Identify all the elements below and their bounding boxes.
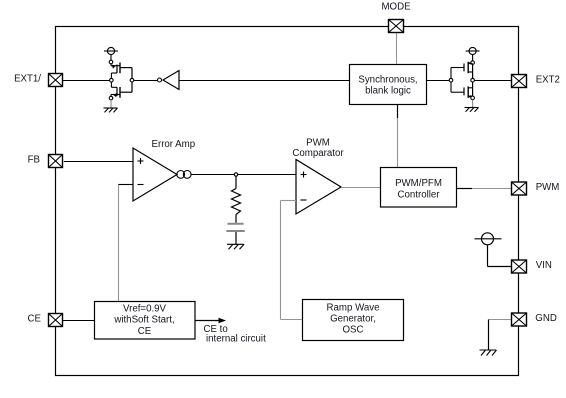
svg-text:EXT1/: EXT1/ bbox=[14, 74, 41, 85]
block PWM/PFM Controller bbox=[381, 168, 457, 208]
wire Synchronous box to PWM/PFM controller bbox=[397, 104, 399, 167]
svg-text:blank logic: blank logic bbox=[365, 86, 411, 97]
wire inverter to Synchronous box bbox=[179, 80, 349, 82]
transistor M1 PMOS (left pair, upper) bbox=[109, 60, 132, 73]
transistor M2 NMOS (left pair, lower) bbox=[109, 87, 132, 100]
wire EXT1 pin to left CMOS gate node bbox=[63, 80, 110, 82]
wire CE pin to Vref block bbox=[63, 320, 94, 322]
block Vref with Soft Start CE bbox=[95, 302, 196, 340]
svg-text:Vref=0.9V: Vref=0.9V bbox=[123, 304, 167, 315]
svg-text:Synchronous,: Synchronous, bbox=[358, 75, 417, 86]
svg-text:internal circuit: internal circuit bbox=[206, 334, 266, 345]
op-amp PWM comparator bbox=[296, 160, 341, 215]
drain rail / output node (left pair) bbox=[130, 68, 134, 93]
pin GND bbox=[512, 313, 557, 326]
pin VIN bbox=[512, 260, 552, 273]
pin MODE bbox=[381, 2, 411, 33]
resistor R1 bbox=[232, 189, 241, 223]
svg-text:Comparator: Comparator bbox=[292, 148, 344, 159]
wire FB pin to error amp + input bbox=[64, 161, 133, 163]
svg-text:Error Amp: Error Amp bbox=[152, 139, 196, 150]
svg-text:CE: CE bbox=[28, 314, 42, 325]
svg-text:MODE: MODE bbox=[381, 2, 411, 13]
svg-text:PWM: PWM bbox=[306, 138, 330, 149]
svg-text:OSC: OSC bbox=[343, 325, 364, 336]
block Synchronous, blank logic bbox=[350, 65, 427, 105]
wire comparator output to PWM/PFM controller bbox=[341, 187, 380, 189]
inverter U1 (points left) bbox=[158, 71, 180, 90]
block Ramp Wave Generator OSC bbox=[303, 300, 404, 341]
wire output node to inverter bbox=[134, 80, 158, 82]
transistor M3 PMOS (right pair, upper) bbox=[464, 61, 474, 79]
ground (RC network) bbox=[227, 244, 244, 249]
wire Synchronous box to right CMOS gate node bbox=[427, 80, 449, 82]
wire node to resistor bbox=[235, 176, 237, 188]
svg-text:FB: FB bbox=[28, 155, 40, 166]
svg-text:PWM: PWM bbox=[536, 182, 560, 193]
arrow CE to internal circuit bbox=[195, 318, 266, 345]
node at RC compensation tap bbox=[234, 173, 237, 176]
power supply symbol (right pair) bbox=[466, 47, 480, 60]
wire error amp output to comparator + input bbox=[191, 174, 296, 176]
pin EXT1/ bbox=[14, 74, 62, 87]
wire error amp minus input feedback bbox=[118, 185, 133, 302]
output node (right pair) bbox=[471, 78, 475, 82]
svg-text:CE: CE bbox=[138, 326, 152, 337]
svg-text:EXT2: EXT2 bbox=[536, 75, 560, 86]
pin CE bbox=[28, 314, 63, 327]
wire GND pin to ground bbox=[489, 320, 512, 351]
ground (GND pin) bbox=[480, 350, 497, 356]
power supply symbol (left pair) bbox=[104, 47, 118, 60]
svg-text:PWM/PFM: PWM/PFM bbox=[395, 178, 442, 189]
wire MODE pin to Synchronous box bbox=[396, 33, 398, 65]
transistor M4 NMOS (right pair, lower) bbox=[464, 82, 474, 100]
gate node (right pair) bbox=[449, 68, 464, 93]
wire right CMOS output to EXT2 pin bbox=[474, 80, 511, 82]
wire supply to VIN pin bbox=[488, 245, 512, 267]
gate node (left pair) bbox=[110, 73, 117, 87]
svg-text:Generator,: Generator, bbox=[330, 314, 376, 325]
label Error Amp bbox=[152, 139, 196, 150]
svg-text:GND: GND bbox=[535, 313, 557, 324]
pin FB bbox=[28, 155, 63, 168]
svg-text:Ramp Wave: Ramp Wave bbox=[327, 303, 380, 314]
pin EXT2 bbox=[512, 75, 560, 88]
capacitor C1 bbox=[226, 224, 244, 245]
svg-text:Controller: Controller bbox=[398, 190, 441, 201]
svg-text:VIN: VIN bbox=[536, 260, 552, 271]
ground (right pair) bbox=[465, 100, 479, 112]
pin PWM bbox=[512, 182, 560, 195]
error amp output current-source symbol (double circle) bbox=[177, 171, 191, 179]
op-amp error amplifier bbox=[133, 148, 177, 201]
IC outer boundary box bbox=[56, 27, 519, 376]
power supply symbol (VIN) bbox=[475, 233, 502, 245]
svg-text:withSoft Start,: withSoft Start, bbox=[113, 315, 174, 326]
ground (left pair) bbox=[104, 100, 118, 113]
wire comparator minus input to ramp generator bbox=[281, 201, 303, 320]
wire PWM/PFM controller to PWM pin bbox=[457, 188, 512, 190]
label PWM Comparator bbox=[292, 138, 344, 160]
